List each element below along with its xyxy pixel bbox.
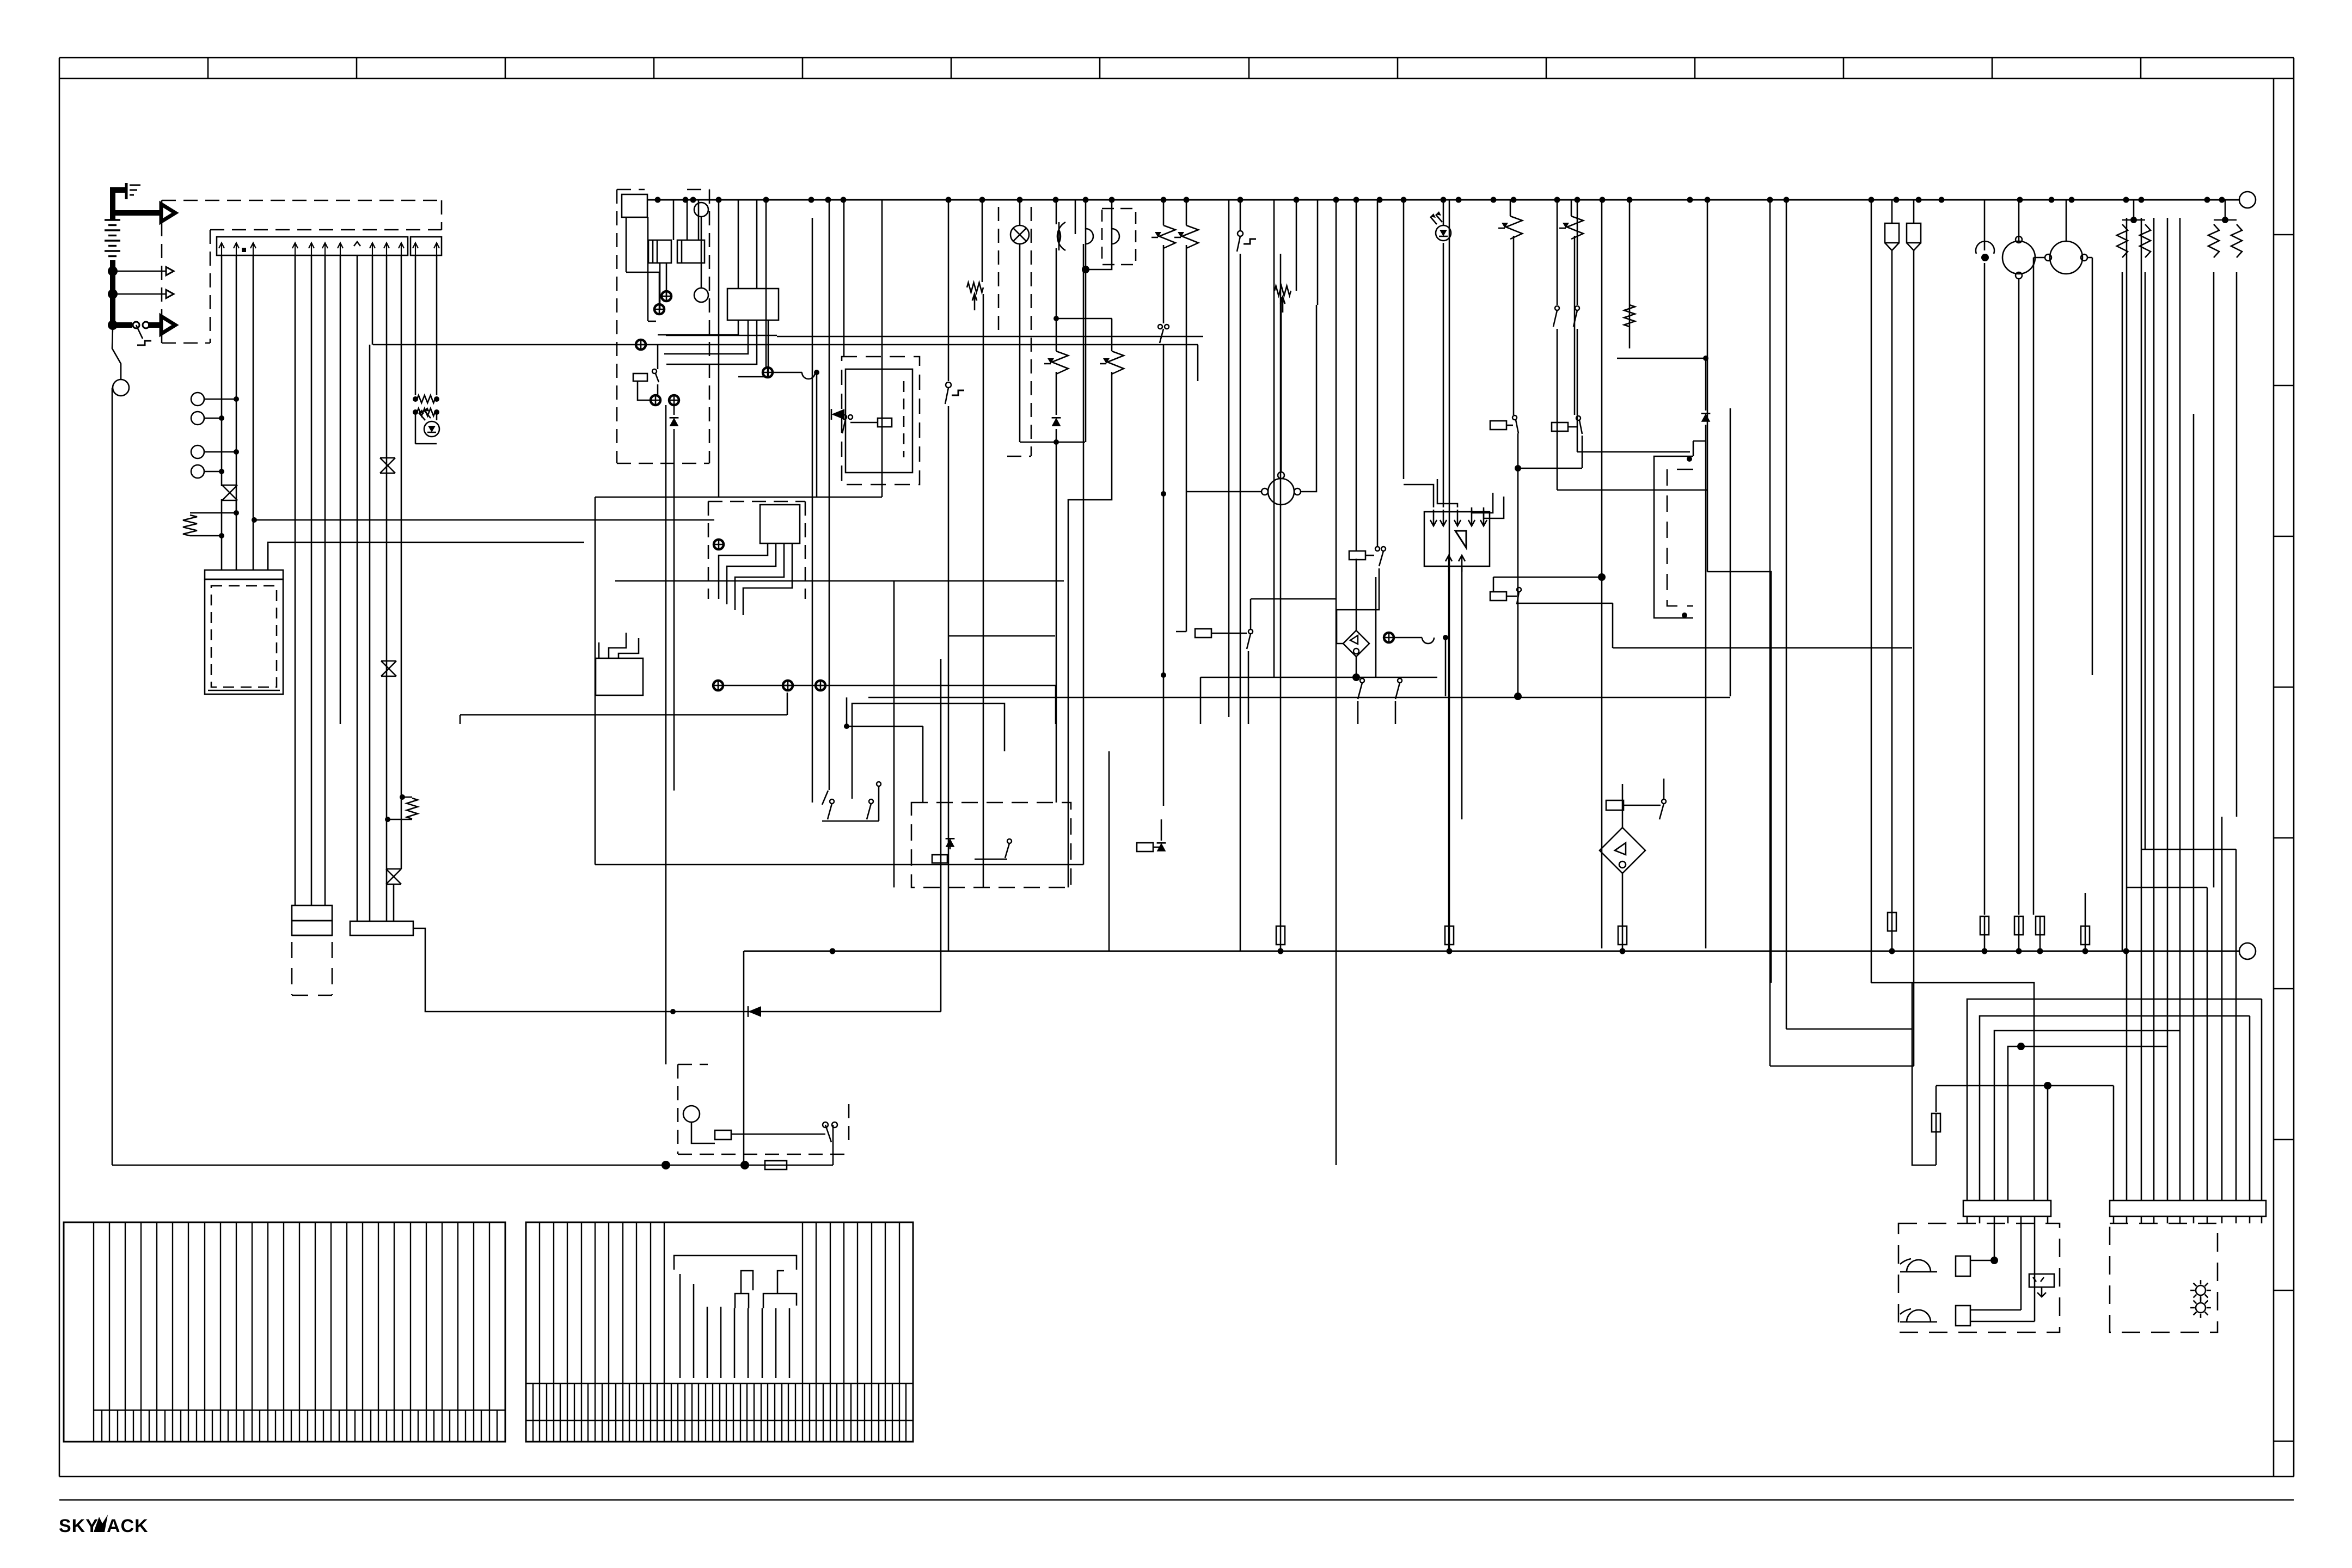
connector circles col [191,393,204,478]
hline y1890 [1786,1028,1912,1030]
relay K2 [677,240,705,263]
relay dashed box [842,357,920,485]
pump motor left lead [1187,491,1261,493]
BR connector left pins [1967,1216,2048,1223]
sun symbol 2 [2190,1297,2211,1318]
battery node 3 [108,320,118,330]
module wires [626,200,701,321]
pump motor right lead [1301,305,1316,492]
wire 1620 [881,200,883,497]
vert 1093 [595,497,596,865]
oplus y1258 b [783,681,793,690]
relay coil 2491 [1349,551,1374,560]
switch pair B [1395,678,1402,724]
surge pair 2 [2208,200,2242,887]
pot resistor [967,283,983,310]
hline y1050 [1707,572,1771,983]
circle lead 1 [204,399,236,400]
title band line [59,78,2294,79]
dome2 [1082,200,1119,273]
module wire h2 [648,321,656,322]
lamp in lower box [683,1106,700,1122]
strip wire 434 [236,255,237,513]
motor M1 [2002,200,2035,915]
resistor pair top [417,395,435,403]
comb2 bracket [674,1255,797,1378]
wire 2257 [1228,200,1230,717]
line y616 [666,335,777,336]
line y1868 ext [940,659,942,1012]
strip wire 625 [340,255,341,724]
mid dashed glyph A [932,838,954,863]
wire 781 down [413,928,941,1012]
wire 1500 down [816,372,818,497]
lower switch [823,1122,837,1142]
central wires up [738,200,757,289]
door bracket [1654,441,1706,618]
comb1 lower columns [102,1410,497,1442]
connector1 box [292,905,332,935]
fuse 3645 [1980,916,1989,935]
svg-text:SKY: SKY [59,1516,99,1536]
comb2 mini bracket A [735,1271,753,1308]
line y1279 [868,697,1730,699]
zener drop 2137 [1151,200,1175,806]
zener drop 2179 [1174,200,1198,632]
oplus arc mid [1384,633,1448,696]
terminal strip main [217,237,408,255]
fuse on bus4 [765,1161,787,1169]
alarm bell 1 [1900,1259,1937,1272]
line y913 [595,497,882,498]
bus2 junction [636,340,646,350]
wire 1523 [829,200,830,790]
anchor symbol [2029,1274,2054,1297]
dot1 [234,396,239,402]
hline y900 right [1557,489,1707,491]
wire 2662 [1449,200,1450,926]
ECM box bottom line [208,690,280,691]
module pair wires [666,405,674,1064]
harness vertical 4132 [2249,1016,2251,1200]
module lower stairs [599,633,639,658]
wire 3645b [1984,935,1986,951]
wire 1806 low [983,294,984,887]
cluster2 oplus [714,540,724,549]
crossover X3 [380,458,395,473]
control box glyph [1455,531,1466,548]
diode on y1858 [748,1006,761,1017]
pot drop 2381 [1275,200,1296,313]
LED drop 1975 [1075,200,1076,234]
pump motor [1261,472,1301,505]
lamp circle lower [694,288,708,302]
vert 1990 [1083,244,1085,865]
terminal strip aux [411,237,442,255]
line y1313 [460,693,787,724]
harness vertical 4154 [2261,999,2263,1200]
fuse 3747 [2036,916,2044,935]
surge pair 1 [2117,200,2151,951]
breaker 3475 [1885,200,1899,951]
circle lead 4 [204,471,222,473]
junction 467-955 [252,517,257,523]
dot2 [219,415,224,421]
line y996 to right [268,542,584,570]
switch cluster mid [822,782,881,821]
circle lead 3 [204,451,236,453]
alarm bell 2 [1900,1309,1937,1322]
ECM box inner dashed [211,586,277,687]
bus3 end circle [2239,943,2256,959]
wire 1320 [718,200,720,497]
pump motor top lead [1281,297,1282,472]
wire 1529 up [832,949,834,951]
junction y1858 [670,1009,676,1014]
wire 2578 [1403,200,1405,479]
wire 2420 [1317,200,1319,305]
LED bracket [415,443,437,445]
relay diode right [1137,819,1166,852]
bell2 box [1956,1223,2035,1326]
right loop top jogs [2126,849,2236,887]
bus1 from module [647,199,2239,201]
SKYJACK logo [59,1515,149,1536]
res dot bot [219,533,224,538]
control in wires [1404,243,1504,518]
line y955 to right [254,519,714,521]
wire 3281 [1786,200,1787,1029]
BR connector right pins [2114,1216,2262,1223]
module wire 1208 [657,345,659,369]
wire 3136 [1707,200,1708,572]
strip wire 737 [401,255,402,869]
dome drop 1994 [1086,200,1093,442]
relay wire [731,1134,825,1135]
lamp X 1873 [1010,225,1029,244]
wire hourmeter down [112,388,113,1165]
wire battery to hourmeter [112,327,121,379]
line y1279 dots [1514,693,1522,700]
svg-text:ACK: ACK [107,1516,149,1536]
terminal strip pin mark [242,248,246,252]
battery tap lead 2 [113,293,167,295]
vert 2037 [1108,751,1110,951]
line y1588 [595,864,1083,866]
wire 2788 down [1517,468,1519,697]
harness verticals right [2127,218,2180,1200]
line y618 right [777,336,1203,338]
diamond2 tail [1200,577,1437,724]
control box [1424,512,1490,566]
relay box 2965 [1606,800,1661,810]
strip wire 710 [386,255,388,921]
comb2 columns [540,1222,899,1442]
bottom rule [59,1499,2294,1501]
strip wire 656 [357,255,358,921]
central arc jumper [773,370,819,379]
bus3 left turn [743,951,745,1165]
resistor R-left [183,515,197,536]
right band ticks [2274,235,2294,1441]
zener drop 2774 [1498,200,1522,415]
wire 3437 to connector [1871,983,2034,1200]
dashed pair near lamp [999,207,1031,456]
harness verticals right2 [2194,414,2236,1200]
lamp stem [691,1122,715,1143]
relay diode [831,409,844,420]
wire 1492 low [812,367,813,803]
bus3 dots [830,948,2129,954]
central box B [727,289,779,320]
crossover X2 [386,869,401,884]
pot drop 1804 [982,200,983,282]
relay in lower box [715,1130,731,1140]
line y1258 [724,685,1056,724]
res 757 [407,798,418,819]
strip wire 434 lower [236,499,237,570]
bus2 horizontal y633 [373,344,1198,346]
bus4 junction 1223 [661,1161,670,1169]
thick lead to key switch [113,322,132,328]
strip wire 542 [295,255,296,905]
thick arrow feed bottom [148,316,175,334]
control box out-arrows [1445,555,1465,572]
control out wires [1449,566,1462,951]
flasher switch 2860 [1553,200,1559,490]
relay 2207 [1195,599,1253,724]
strip wire 465 [253,255,254,570]
module box A [622,194,647,217]
lamp drop 1873 [1019,200,1021,442]
battery node 2 [108,289,118,299]
harness line y1994 [1936,1082,2114,1200]
right margin band inner line [2273,78,2275,1477]
diamond flow 2 [1343,630,1369,657]
module wire h1 [626,272,659,304]
switch pair A [1358,678,1364,724]
wire 1642 [893,581,895,887]
LED indicator [419,407,439,437]
relay K1 [648,240,671,263]
module wire 1237 top [673,200,675,240]
dot3 [234,449,239,455]
fuse 2662 [1445,926,1454,945]
module oplus 5 [669,395,679,405]
fuse 3708 [2014,916,2023,935]
resistor 2993 [1624,305,1635,327]
line y1334 [844,697,923,803]
BR connector left [1963,1200,2051,1216]
wire 2340 [1273,200,1275,677]
harness left drop [1912,983,1940,1165]
hline 1060 [1493,573,1606,592]
dot4 [219,469,224,474]
wire 3178 [1730,408,1731,696]
aux wire 802 low [436,412,438,420]
battery thick bus [110,260,115,327]
dot circle 3645 [1976,200,1994,915]
battery tap lead 1 [113,271,167,272]
vert 2297 top [1251,598,1336,600]
oplus y1258 a [713,681,723,690]
strip wire 407 [221,255,223,486]
bus2 end turn [1197,345,1199,381]
comb2 dividers [526,1383,913,1420]
strip wire 407 lower [221,499,223,570]
mid dashed box [911,803,1071,887]
hline y830 right [1577,451,1690,453]
wire 2980 to bus3 [1622,945,1624,951]
cluster2 box [760,505,800,543]
strip wire 737 low [393,884,395,921]
zener drop 2886 [1559,200,1583,415]
relay coil [850,418,892,427]
bus4 junction 1368 [740,1161,749,1169]
diode 3133 [1617,356,1710,948]
comb1 divider [94,1410,505,1411]
aux wire 802 [436,255,438,395]
BR dashed box B [2110,1223,2218,1332]
wire 2454 [1336,200,1337,1165]
bus1 junction dots [655,197,2225,203]
bus3 y1747 [744,951,2239,952]
strip wire 684 low [369,345,371,921]
bus4 y2140 [112,1165,833,1166]
fuse 2352 [1276,254,1285,951]
crossover X1 [222,485,237,500]
LED 2651 [1430,200,1451,241]
battery node 1 [108,266,118,276]
small arrow 2 [166,290,174,298]
flow sw wire [1622,784,1624,926]
mid dashed glyph B [975,839,1012,859]
switch 3050 [1659,779,1666,819]
res lead top [190,512,236,514]
zener chain 1940 [948,318,1085,803]
connector1 dashed box [292,942,332,995]
ECM box body [205,579,283,694]
relay sw B [1552,416,1582,434]
thick arrow feed top [113,204,175,222]
comb2 lower columns [533,1383,906,1442]
res757 top lead [400,794,412,800]
lower dashed box [678,1064,849,1154]
ground symbol [126,183,140,199]
bracket y1292 [852,703,1004,799]
module oplus 4 [651,395,660,405]
fuse 3830 [2081,893,2090,951]
wire 3437 [1871,200,1872,983]
relay sw A [1490,415,1582,471]
wire 3747b [2039,935,2041,951]
strip wire 684 [372,255,373,345]
relay sw C [1490,587,1521,604]
bus1 end circle [2239,192,2256,208]
zener chain 2042 [1068,318,1124,887]
res pair dots [413,396,439,415]
module oplus 1 [661,291,671,301]
strip wire 597 [324,255,326,905]
res lead bot [190,535,222,537]
central stair wires [658,320,768,377]
switch drop 2278 [1237,200,1256,951]
res757 bot lead [385,817,412,822]
central oplus [763,367,773,377]
key switch step glyph [137,341,151,345]
thick bracket battery to ground [113,190,126,220]
wire 2942 [1601,200,1603,948]
fuse 2980 [1618,926,1627,945]
aux wire 763 [415,255,416,395]
module lower box [596,658,643,695]
switch 2530 [1375,200,1386,566]
terminal strip arrows [219,242,404,255]
wire 1492 [812,218,813,367]
bus4 right turn up [832,1125,834,1165]
title band ticks top [208,58,2141,78]
cluster2 dashed top [708,501,805,599]
hline 1108 [1517,603,1613,648]
BR connector right [2110,1200,2266,1216]
hline y1958 [1770,1065,1892,1067]
hourmeter circle [113,379,129,396]
wire 1550 [843,200,845,357]
wire into ECM 492 [267,544,269,570]
switch drop 1742 [945,200,964,951]
comb1 columns [94,1222,489,1442]
sun symbol 1 [2190,1280,2211,1301]
battery cells [105,220,120,256]
connector2 box [350,921,413,935]
cluster2 stairs [719,543,792,615]
comb2 mini bracket B [763,1271,797,1308]
aux wire 763 low [415,412,416,444]
line y1067 [615,580,1064,582]
strip wire 572 [311,255,313,905]
res dot top [234,510,239,516]
diamond flow 2 wire [1337,559,1379,644]
wire 3524 join [1892,1065,1914,1067]
comb1 outline [64,1222,505,1442]
crossover X4 [381,661,396,676]
relay switch [842,415,853,433]
oplus y1258 c [816,681,825,690]
nested harness loops [1967,999,2262,1200]
wire 3708b [2018,935,2020,951]
breaker 3515 [1907,200,1921,1066]
lamp circle top [694,203,708,217]
wire 2491 [1356,200,1357,551]
wire 3251 [1769,200,1771,1066]
hline 1190 [1613,647,1912,649]
module oplus 2 [654,304,664,314]
small arrow 1 [166,267,174,275]
middle dashed module outline [617,189,709,463]
BR dashed box A [1898,1223,2060,1332]
module diode [670,418,679,426]
terminal strip aux arrows [413,243,439,255]
dashed box dome [1102,209,1136,265]
horn drop 1939 [1053,200,1112,321]
control box in-arrows [1430,510,1487,526]
motor M2 [2033,200,2092,915]
circle lead 2 [204,418,222,419]
key switch contacts [133,322,149,339]
nested loop junction [2017,1043,2025,1050]
diamond flow switch [1600,828,1645,873]
bell1 box [1956,1223,1998,1276]
